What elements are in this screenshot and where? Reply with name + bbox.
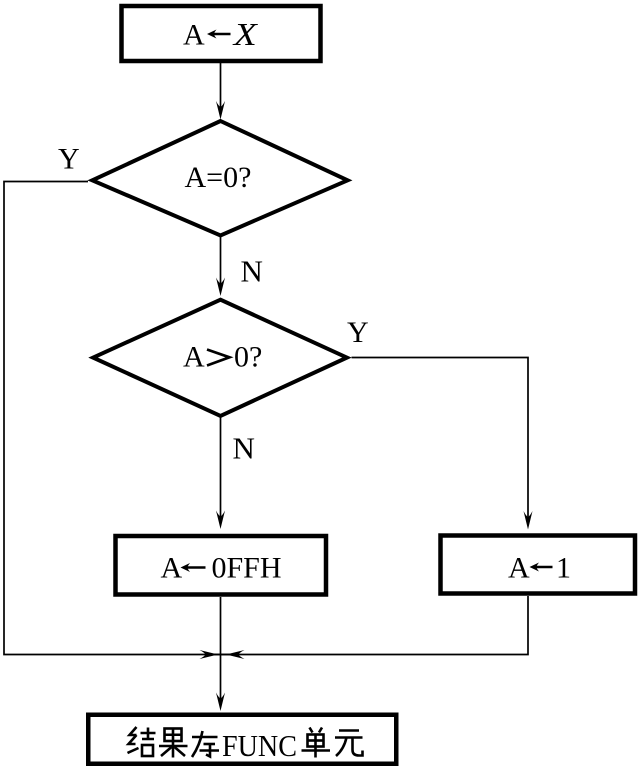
- svg-text:A=0?: A=0?: [185, 161, 252, 194]
- svg-text:N: N: [241, 254, 263, 289]
- svg-text:N: N: [233, 431, 255, 466]
- svg-text:0?: 0?: [234, 341, 262, 374]
- svg-text:Y: Y: [347, 316, 369, 349]
- svg-text:Y: Y: [58, 143, 80, 176]
- svg-text:A: A: [508, 552, 530, 585]
- svg-text:A: A: [183, 341, 205, 374]
- svg-text:A: A: [161, 552, 183, 585]
- svg-text:0FFH: 0FFH: [212, 552, 282, 585]
- svg-text:FUNC: FUNC: [222, 728, 297, 763]
- svg-text:1: 1: [556, 552, 571, 585]
- svg-text:A: A: [183, 19, 205, 52]
- svg-text:X: X: [231, 16, 258, 52]
